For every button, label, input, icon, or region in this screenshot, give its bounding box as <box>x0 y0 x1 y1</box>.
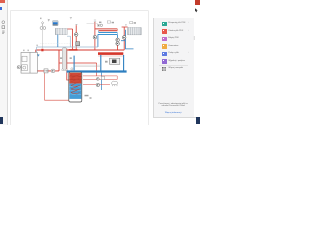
wire: circulation drop <box>96 63 98 76</box>
bottom-right navy square <box>196 117 200 124</box>
right tools sidebar <box>153 18 195 117</box>
boiler K1 <box>21 52 37 73</box>
label box symbol mid <box>107 21 110 23</box>
bottom-left navy square <box>0 117 3 123</box>
valve at coil riser top <box>94 20 96 22</box>
wire: blue return main <box>37 36 98 55</box>
DHW tank B1 <box>69 72 82 102</box>
pump P6 (circulation) <box>96 83 99 86</box>
wire: sensor lines <box>74 65 101 66</box>
pump on coil top <box>100 24 102 26</box>
valve on main left end <box>41 49 43 52</box>
top-right red close button <box>195 0 200 5</box>
boiler blue tick <box>37 55 39 56</box>
leader line low <box>40 43 70 45</box>
leader line <box>87 22 99 24</box>
arrow at pump branch top <box>75 24 77 25</box>
heating serpentine coil red runs <box>95 29 117 31</box>
wire: tank feed vertical <box>67 49 70 80</box>
motor valve M1 <box>76 42 80 46</box>
controller U1 <box>53 21 59 26</box>
heating serpentine coil blue runs <box>98 31 117 35</box>
wire: thin red under manifold <box>98 55 123 57</box>
wire: DHW circulation loop <box>83 76 117 85</box>
vent symbol <box>48 19 50 21</box>
drawing frame right border <box>147 11 149 126</box>
wire: blue U right riser <box>123 55 125 71</box>
top-left red logo fragment <box>0 0 5 3</box>
wire: coil riser blue top <box>117 35 119 39</box>
manifold: thick red bar <box>98 52 123 55</box>
valve bowtie on coil top <box>97 25 99 26</box>
wire: blue U left riser <box>100 55 102 71</box>
valve box on circulation <box>101 76 104 79</box>
wire: red supply main <box>36 49 124 51</box>
wire: radiator B riser <box>122 27 128 50</box>
drawing frame top border <box>11 10 149 12</box>
labels: top row <box>23 18 136 99</box>
wire: cold water drop below bar <box>101 73 103 90</box>
node: tee junction <box>69 49 78 51</box>
drawing frame left border <box>10 11 12 126</box>
pump P0 (left of boiler) <box>17 66 20 69</box>
wire: radiator B blue return <box>126 30 134 49</box>
wire: red riser to DHW loop <box>58 50 60 71</box>
sensor pocket S1 <box>62 69 64 71</box>
scrollbar dot <box>194 36 195 40</box>
radiator A <box>55 29 67 35</box>
valve V1 on boiler loop <box>44 69 48 73</box>
left panel icon: page thumbnail <box>2 26 5 29</box>
thermometer on cold line <box>71 68 73 70</box>
left blue bookmark mark <box>0 7 2 10</box>
drain symbol <box>112 81 118 86</box>
hydraulic separator <box>62 48 66 70</box>
wire: cold water vertical <box>73 56 75 71</box>
left panel icon: navigation circle <box>2 21 5 24</box>
instrument gauges G1 G2 <box>40 27 46 49</box>
wire: boiler loop pipe <box>37 70 59 72</box>
wire: coil return drop <box>97 34 99 47</box>
pump P7 (circulation upper) <box>96 78 99 81</box>
wire: coil left riser <box>94 22 96 50</box>
pump P3 (coil left riser) <box>93 35 97 39</box>
wire: coil return riser red part <box>117 38 119 50</box>
sidebar rows container <box>153 18 194 117</box>
pump P5 (radiator B riser) <box>122 36 126 40</box>
vent at radiator A riser <box>70 18 72 20</box>
pump P2 (radiator A circuit) <box>74 33 78 37</box>
wire: DHW supply horizontal <box>59 62 97 64</box>
bottom divider under sidebar <box>153 116 200 119</box>
radiator B <box>128 28 142 35</box>
wire: boiler fill line down-right to tank bottom <box>45 73 73 100</box>
pump P1 on boiler loop <box>51 69 55 73</box>
label box symbol right <box>130 22 133 24</box>
mouse cursor <box>195 8 198 12</box>
left panel icon: clip <box>2 31 4 33</box>
wire: thick blue return bar <box>67 70 127 72</box>
heat exchanger unit U17 <box>105 58 120 64</box>
valve mark radiator B feed <box>125 25 127 27</box>
wire: blue dash near pump B <box>121 40 125 42</box>
wire: radiator A left drain <box>57 35 59 47</box>
wire: pump branch riser A <box>75 25 77 50</box>
wire: radiator A riser <box>67 29 72 50</box>
safety valve diamond <box>41 22 43 27</box>
sensor pocket S2 <box>65 69 67 71</box>
pump P4b (coil return riser lower) <box>116 42 120 46</box>
wire: boiler supply stub <box>35 50 37 53</box>
left thumbnail strip <box>0 0 8 125</box>
pump P4a (coil return riser) <box>116 38 120 42</box>
